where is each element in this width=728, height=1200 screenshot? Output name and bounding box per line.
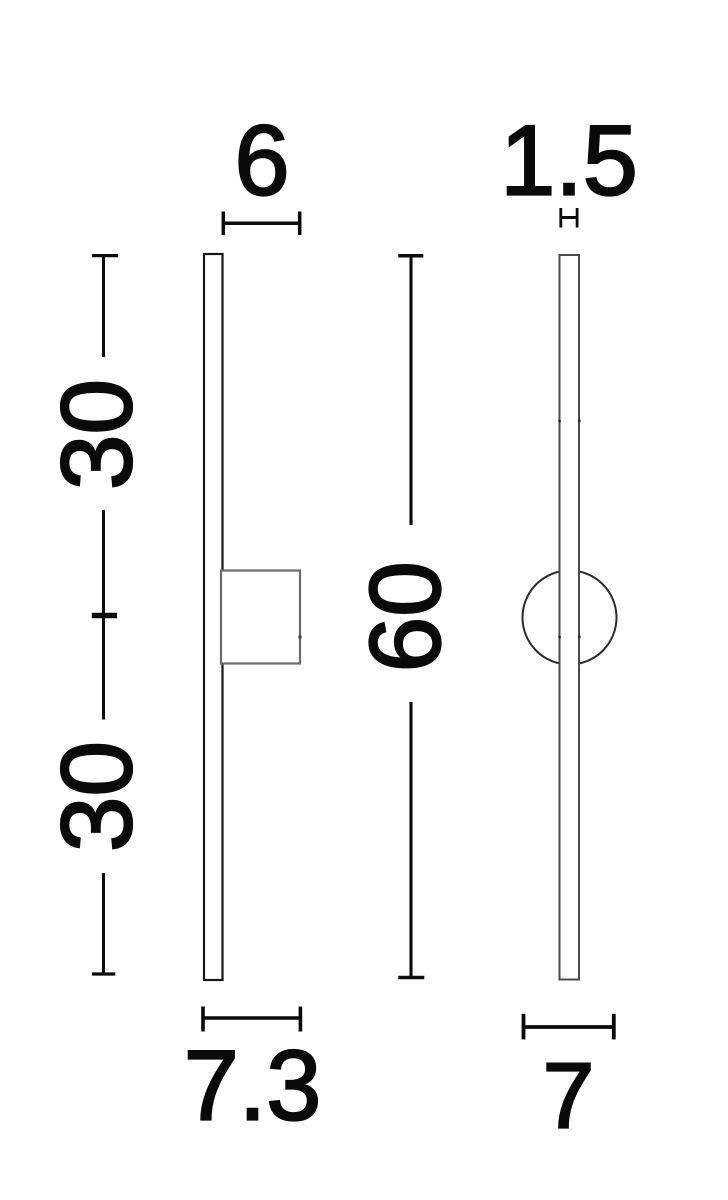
svg-text:7.3: 7.3 bbox=[184, 1030, 322, 1141]
mounting box seam dot bbox=[299, 636, 302, 639]
svg-text:6: 6 bbox=[234, 105, 289, 216]
dimension 7 line bbox=[524, 1014, 614, 1040]
dimension 60 line bbox=[398, 256, 424, 978]
svg-text:7: 7 bbox=[543, 1044, 595, 1148]
dimension 30/30 line bbox=[92, 256, 118, 975]
lamp front view: mounting box bbox=[221, 571, 300, 664]
lamp side view seam dot upper right bbox=[578, 420, 581, 423]
lamp side view seam dot lower left bbox=[558, 636, 561, 639]
svg-text:1.5: 1.5 bbox=[500, 105, 638, 216]
svg-text:60: 60 bbox=[350, 561, 462, 672]
svg-text:30: 30 bbox=[41, 379, 153, 490]
dimension 1.5 line bbox=[561, 208, 577, 228]
dimension 7.3 line bbox=[203, 1007, 300, 1032]
svg-text:30: 30 bbox=[41, 741, 153, 852]
lamp side view seam dot lower right bbox=[578, 636, 581, 639]
lamp side view: vertical bar bbox=[560, 255, 580, 980]
dimension 6 line bbox=[223, 212, 299, 236]
lamp front view: vertical bar bbox=[204, 254, 223, 980]
lamp side view seam dot upper left bbox=[558, 420, 561, 423]
lamp side view: wall canopy circle bbox=[523, 571, 617, 665]
